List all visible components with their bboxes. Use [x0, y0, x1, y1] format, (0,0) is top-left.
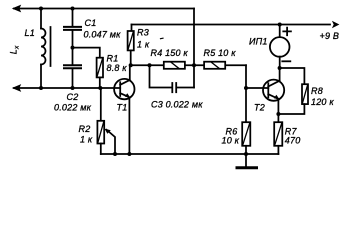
resistor R7: [274, 114, 282, 154]
node C3 left tap: [148, 63, 152, 67]
ground: [237, 154, 257, 168]
stray mark: [161, 37, 164, 40]
node bottom-L1: [39, 86, 43, 90]
R2 wiper arrow: [107, 130, 116, 154]
node R2 wiper on ground rail: [113, 152, 117, 156]
plus sign: [283, 28, 291, 36]
svg-text:10 к: 10 к: [222, 135, 240, 145]
wire bottom-left rail (Lx lower terminal to T1 base): [14, 87, 120, 89]
wire T2 base column: [245, 65, 247, 122]
svg-text:0.047 мк: 0.047 мк: [84, 29, 122, 39]
minus sign: [282, 60, 290, 62]
transistor T1: [114, 65, 134, 154]
svg-text:R5 10 к: R5 10 к: [204, 48, 237, 58]
svg-text:8.8 к: 8.8 к: [107, 63, 128, 73]
wire +9V rail: [132, 24, 331, 26]
svg-text:470: 470: [285, 135, 301, 145]
svg-text:Т1: Т1: [117, 103, 128, 113]
capacitor C2: [64, 48, 81, 88]
resistor R4: [164, 62, 185, 69]
svg-text:R4 150 к: R4 150 к: [151, 48, 189, 58]
wire vertical from top rail down to C3 right side: [193, 9, 195, 88]
meter IP1: [270, 25, 291, 69]
svg-text:0.022 мк: 0.022 мк: [54, 102, 92, 112]
resistor R6: [242, 122, 250, 154]
node top-C1: [71, 7, 75, 11]
resistor R3: [128, 25, 134, 66]
svg-text:1 к: 1 к: [137, 40, 150, 50]
node T2 emitter / R8 / R7: [276, 112, 280, 116]
svg-text:1 к: 1 к: [80, 135, 93, 145]
arrow Lx bottom: [12, 84, 21, 92]
node T2 base: [244, 86, 248, 90]
node vertical/mid rail: [192, 63, 196, 67]
wire ground rail: [101, 153, 279, 155]
capacitor C1: [64, 9, 81, 48]
node T1 emitter on ground rail: [127, 152, 131, 156]
resistor R1: [73, 48, 104, 88]
node IP1 top: [278, 23, 282, 27]
wire mid rail (T1 collector to T2 base column): [130, 64, 246, 66]
svg-text:C1: C1: [85, 18, 97, 28]
svg-text:+9 В: +9 В: [320, 31, 340, 41]
resistor R8: [278, 68, 308, 114]
svg-text:C2: C2: [67, 92, 79, 102]
svg-text:R3: R3: [137, 28, 149, 38]
resistor R2 (variable): [97, 88, 115, 154]
arrow +9V: [332, 21, 340, 29]
svg-text:R8: R8: [311, 86, 323, 96]
inductor L1: [41, 9, 51, 89]
svg-text:ИП1: ИП1: [249, 36, 268, 46]
node T2 collector / IP1 minus: [278, 66, 282, 70]
node top-L1: [39, 7, 43, 11]
svg-text:C3 0.022 мк: C3 0.022 мк: [151, 99, 203, 109]
arrow Lx top: [12, 5, 21, 13]
svg-text:L1: L1: [25, 28, 35, 38]
wire T2 base: [246, 87, 268, 89]
node R3 bottom / T1 collector: [129, 63, 133, 67]
node ground tap: [244, 152, 248, 156]
node C1/C2/R1: [71, 46, 75, 50]
resistor R5: [204, 62, 225, 69]
svg-text:120 к: 120 к: [311, 97, 334, 107]
node R1/R2 on base rail: [98, 86, 102, 90]
capacitor C3 (parallel with R4): [150, 65, 195, 92]
svg-text:R1: R1: [107, 54, 119, 64]
svg-text:Т2: Т2: [254, 103, 265, 113]
wire top rail (Lx upper terminal): [14, 8, 194, 10]
svg-text:R2: R2: [79, 124, 91, 134]
node bottom-C2: [71, 86, 75, 90]
transistor T2: [263, 80, 284, 114]
wire T2 collector: [279, 68, 281, 81]
